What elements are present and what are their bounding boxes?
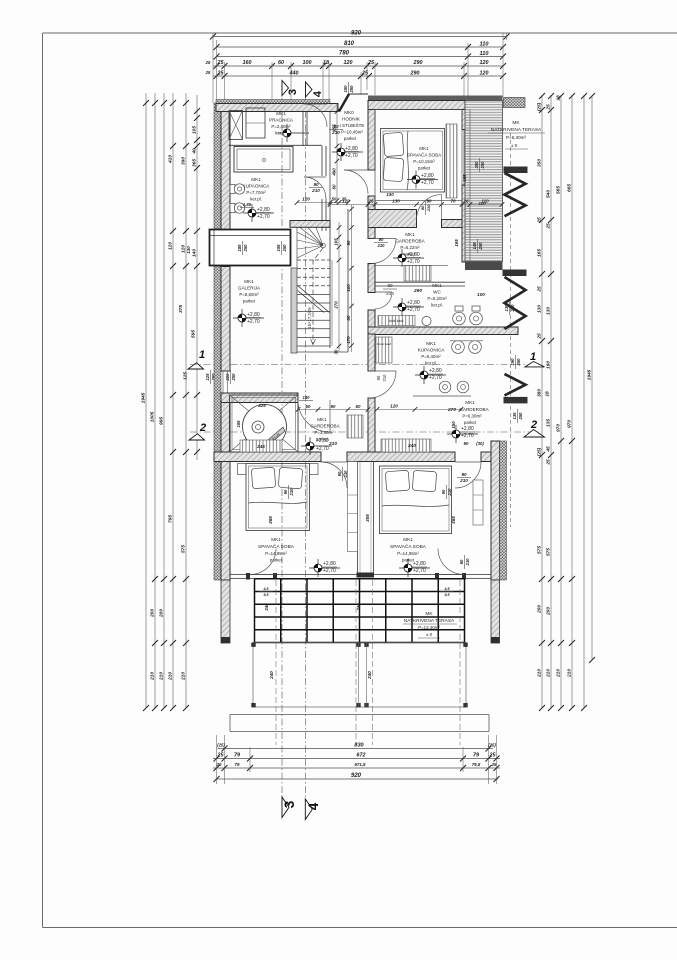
svg-text:25: 25 bbox=[489, 753, 497, 759]
svg-text:80: 80 bbox=[346, 315, 351, 320]
svg-text:3: 3 bbox=[287, 89, 299, 95]
svg-text:30: 30 bbox=[334, 349, 339, 354]
svg-text:79: 79 bbox=[473, 753, 479, 759]
svg-text:210: 210 bbox=[556, 669, 562, 678]
svg-text:125: 125 bbox=[183, 372, 189, 380]
svg-text:25: 25 bbox=[361, 71, 369, 77]
svg-text:90: 90 bbox=[313, 182, 319, 187]
svg-text:185: 185 bbox=[237, 244, 242, 252]
svg-text:1: 1 bbox=[199, 349, 205, 361]
svg-text:90: 90 bbox=[379, 237, 384, 242]
svg-text:60: 60 bbox=[356, 404, 361, 409]
svg-text:+2,80: +2,80 bbox=[316, 438, 329, 444]
svg-text:130: 130 bbox=[303, 395, 311, 400]
svg-text:795: 795 bbox=[168, 515, 174, 523]
svg-text:MK1: MK1 bbox=[276, 111, 286, 116]
svg-text:79,5: 79,5 bbox=[472, 762, 481, 767]
svg-text:25: 25 bbox=[537, 217, 543, 224]
svg-text:110: 110 bbox=[480, 42, 490, 48]
svg-text:90: 90 bbox=[459, 559, 464, 564]
svg-text:PRAONICA: PRAONICA bbox=[269, 118, 294, 123]
svg-text:120: 120 bbox=[302, 197, 310, 202]
svg-text:25: 25 bbox=[537, 286, 543, 293]
svg-text:150: 150 bbox=[343, 85, 348, 93]
svg-text:ker.pl.: ker.pl. bbox=[250, 197, 262, 202]
svg-text:110: 110 bbox=[480, 51, 490, 57]
svg-text:25: 25 bbox=[367, 60, 375, 66]
svg-text:440: 440 bbox=[289, 71, 299, 77]
svg-text:KUPAONICA: KUPAONICA bbox=[418, 348, 446, 353]
svg-text:1,85: 1,85 bbox=[243, 202, 252, 207]
svg-text:+2,70: +2,70 bbox=[407, 259, 420, 265]
svg-text:200: 200 bbox=[150, 609, 156, 618]
svg-text:250: 250 bbox=[516, 358, 521, 367]
svg-text:365: 365 bbox=[451, 516, 456, 524]
svg-text:+2,80: +2,80 bbox=[247, 312, 260, 318]
svg-text:365: 365 bbox=[268, 516, 273, 524]
svg-text:210: 210 bbox=[159, 672, 165, 681]
svg-text:+2,80: +2,80 bbox=[429, 368, 442, 374]
svg-text:90: 90 bbox=[376, 375, 381, 380]
svg-text:155: 155 bbox=[332, 124, 337, 132]
svg-text:130: 130 bbox=[186, 246, 191, 254]
svg-text:60: 60 bbox=[306, 404, 311, 409]
svg-text:26: 26 bbox=[462, 199, 469, 204]
svg-text:parket: parket bbox=[418, 166, 431, 171]
svg-text:130: 130 bbox=[386, 192, 394, 197]
svg-text:P=7,70m²: P=7,70m² bbox=[246, 190, 266, 195]
svg-text:25: 25 bbox=[546, 223, 552, 230]
svg-text:105: 105 bbox=[192, 126, 198, 134]
svg-text:ker.pl.: ker.pl. bbox=[431, 303, 443, 308]
svg-text:120: 120 bbox=[168, 242, 174, 250]
svg-text:25: 25 bbox=[217, 753, 225, 759]
svg-text:375: 375 bbox=[178, 305, 184, 313]
svg-text:SPAVAČA SOBA: SPAVAČA SOBA bbox=[258, 543, 295, 550]
svg-text:WC: WC bbox=[433, 290, 441, 295]
svg-text:25: 25 bbox=[217, 71, 225, 77]
svg-text:P=5,22m²: P=5,22m² bbox=[400, 245, 420, 250]
svg-text:25: 25 bbox=[546, 104, 552, 111]
svg-text:4: 4 bbox=[306, 802, 321, 810]
svg-text:165: 165 bbox=[236, 420, 241, 428]
svg-text:+2,70: +2,70 bbox=[247, 319, 260, 325]
svg-text:210: 210 bbox=[567, 669, 573, 678]
svg-text:+2,70: +2,70 bbox=[257, 214, 270, 220]
svg-text:parket: parket bbox=[464, 420, 477, 425]
svg-text:HODNIK: HODNIK bbox=[342, 117, 361, 122]
svg-text:165: 165 bbox=[454, 239, 459, 247]
svg-text:240: 240 bbox=[367, 671, 372, 680]
svg-text:4,5: 4,5 bbox=[263, 587, 270, 591]
svg-text:672: 672 bbox=[357, 753, 366, 759]
svg-text:90: 90 bbox=[441, 489, 446, 494]
svg-text:+2,80: +2,80 bbox=[421, 173, 434, 179]
svg-text:210: 210 bbox=[382, 374, 387, 382]
svg-text:+2,80: +2,80 bbox=[345, 146, 358, 152]
svg-text:parket: parket bbox=[344, 136, 357, 141]
svg-text:780: 780 bbox=[339, 51, 350, 57]
svg-text:79: 79 bbox=[234, 753, 240, 759]
svg-text:90: 90 bbox=[331, 404, 336, 409]
svg-text:MK1: MK1 bbox=[244, 279, 254, 284]
svg-text:3: 3 bbox=[282, 800, 297, 808]
svg-text:18: 18 bbox=[556, 95, 562, 101]
svg-text:125: 125 bbox=[205, 373, 210, 381]
svg-text:145: 145 bbox=[472, 242, 477, 250]
svg-text:NATKRIVENA TERASA: NATKRIVENA TERASA bbox=[491, 127, 542, 133]
svg-text:I STUBIŠTE: I STUBIŠTE bbox=[339, 122, 364, 128]
svg-text:± 0: ± 0 bbox=[426, 632, 433, 637]
svg-text:široki kauč: široki kauč bbox=[388, 319, 403, 323]
svg-text:90: 90 bbox=[461, 472, 467, 477]
svg-text:380: 380 bbox=[537, 389, 543, 397]
svg-text:P=13,40m²: P=13,40m² bbox=[418, 625, 440, 630]
svg-text:490: 490 bbox=[332, 168, 337, 177]
svg-text:90: 90 bbox=[387, 283, 393, 288]
svg-text:GARDEROBA: GARDEROBA bbox=[395, 239, 425, 244]
svg-text:+2,70: +2,70 bbox=[429, 375, 442, 381]
svg-text:350: 350 bbox=[474, 161, 479, 169]
svg-text:210: 210 bbox=[328, 441, 337, 447]
svg-text:165: 165 bbox=[537, 249, 543, 257]
svg-text:4: 4 bbox=[312, 90, 324, 97]
svg-text:1945: 1945 bbox=[587, 369, 593, 380]
svg-text:210: 210 bbox=[537, 669, 543, 678]
svg-text:60: 60 bbox=[278, 60, 284, 66]
svg-text:210: 210 bbox=[377, 243, 386, 248]
svg-text:120: 120 bbox=[344, 60, 353, 66]
svg-text:410: 410 bbox=[168, 155, 174, 164]
svg-text:(30): (30) bbox=[476, 441, 484, 446]
svg-text:MK1: MK1 bbox=[465, 400, 475, 405]
svg-text:200: 200 bbox=[159, 609, 165, 618]
svg-text:250: 250 bbox=[282, 244, 287, 253]
svg-text:210: 210 bbox=[150, 672, 156, 681]
svg-text:+2,80: +2,80 bbox=[323, 561, 336, 567]
svg-text:920: 920 bbox=[351, 31, 362, 37]
svg-text:+2,70: +2,70 bbox=[323, 568, 336, 574]
svg-text:MK1: MK1 bbox=[419, 146, 429, 151]
svg-text:P=5,20m²: P=5,20m² bbox=[427, 296, 447, 301]
svg-text:ker.pl.: ker.pl. bbox=[425, 361, 437, 366]
svg-text:16×17,2/29: 16×17,2/29 bbox=[307, 307, 312, 329]
svg-text:+2,80: +2,80 bbox=[461, 426, 474, 432]
svg-text:270: 270 bbox=[334, 301, 339, 310]
svg-text:+2,70: +2,70 bbox=[345, 153, 358, 159]
svg-text:(25): (25) bbox=[537, 102, 543, 111]
svg-text:240: 240 bbox=[269, 671, 274, 680]
svg-text:195: 195 bbox=[276, 244, 281, 252]
svg-text:135: 135 bbox=[546, 419, 552, 427]
svg-text:100: 100 bbox=[477, 292, 485, 297]
svg-text:P=14,95m²: P=14,95m² bbox=[265, 551, 287, 556]
svg-text:160: 160 bbox=[243, 60, 252, 66]
svg-text:NATKRIVENA TERASA: NATKRIVENA TERASA bbox=[404, 618, 455, 624]
svg-text:180: 180 bbox=[451, 421, 456, 429]
svg-text:široki kauč: široki kauč bbox=[377, 342, 392, 346]
svg-text:665: 665 bbox=[567, 184, 573, 192]
svg-text:MK1: MK1 bbox=[403, 537, 413, 542]
svg-text:25: 25 bbox=[205, 70, 211, 75]
svg-text:parket: parket bbox=[270, 558, 283, 563]
svg-text:250: 250 bbox=[231, 373, 236, 382]
svg-text:parket: parket bbox=[243, 299, 256, 304]
svg-text:1945: 1945 bbox=[141, 392, 147, 403]
svg-text:MK1: MK1 bbox=[251, 177, 261, 182]
svg-text:P=14,95m²: P=14,95m² bbox=[397, 551, 419, 556]
svg-text:18: 18 bbox=[323, 60, 329, 66]
svg-text:+2,80: +2,80 bbox=[407, 252, 420, 258]
svg-text:MK0: MK0 bbox=[344, 110, 354, 115]
svg-text:(25): (25) bbox=[488, 743, 496, 748]
svg-text:290: 290 bbox=[413, 60, 423, 66]
svg-text:210: 210 bbox=[181, 672, 187, 681]
svg-text:210: 210 bbox=[289, 488, 294, 497]
svg-text:250: 250 bbox=[243, 244, 248, 253]
svg-text:90: 90 bbox=[283, 489, 288, 494]
svg-text:P=16,45m²: P=16,45m² bbox=[341, 130, 363, 135]
svg-text:565: 565 bbox=[556, 186, 562, 194]
svg-text:+2,70: +2,70 bbox=[407, 307, 420, 313]
svg-text:540: 540 bbox=[546, 190, 552, 198]
svg-text:P=10,15m²: P=10,15m² bbox=[413, 159, 435, 164]
svg-text:P=6,30m²: P=6,30m² bbox=[462, 414, 482, 419]
svg-text:SPAVAČA SOBA: SPAVAČA SOBA bbox=[390, 543, 427, 550]
svg-text:+2,70: +2,70 bbox=[316, 446, 329, 452]
svg-text:60: 60 bbox=[332, 184, 337, 189]
svg-text:25: 25 bbox=[217, 60, 225, 66]
svg-text:290: 290 bbox=[413, 288, 422, 294]
svg-text:130: 130 bbox=[546, 307, 552, 315]
svg-text:365: 365 bbox=[192, 159, 198, 167]
svg-text:1: 1 bbox=[530, 351, 536, 363]
svg-text:4,5: 4,5 bbox=[444, 587, 451, 591]
svg-text:575: 575 bbox=[546, 548, 552, 556]
svg-text:79: 79 bbox=[235, 762, 240, 767]
svg-text:MK: MK bbox=[512, 120, 520, 126]
svg-text:165: 165 bbox=[462, 174, 467, 182]
svg-text:595: 595 bbox=[191, 330, 197, 338]
svg-text:970: 970 bbox=[567, 420, 573, 428]
svg-text:210: 210 bbox=[465, 558, 470, 567]
svg-text:P=2,40m²: P=2,40m² bbox=[271, 124, 291, 129]
svg-text:MK1: MK1 bbox=[426, 341, 436, 346]
svg-text:25: 25 bbox=[546, 459, 552, 466]
svg-text:100: 100 bbox=[346, 284, 351, 292]
svg-text:671,5: 671,5 bbox=[355, 762, 367, 767]
svg-text:200: 200 bbox=[546, 607, 552, 616]
svg-text:110: 110 bbox=[481, 199, 489, 204]
svg-text:MK1: MK1 bbox=[432, 283, 442, 288]
svg-text:+2,80: +2,80 bbox=[413, 561, 426, 567]
svg-text:MK1: MK1 bbox=[317, 417, 327, 422]
svg-text:190: 190 bbox=[546, 361, 552, 369]
svg-text:40: 40 bbox=[192, 148, 198, 155]
svg-text:SPAVAČA SOBA: SPAVAČA SOBA bbox=[407, 152, 442, 158]
svg-text:210: 210 bbox=[447, 488, 452, 497]
svg-text:130: 130 bbox=[392, 199, 400, 204]
svg-text:90: 90 bbox=[420, 205, 425, 210]
svg-text:995: 995 bbox=[159, 417, 165, 425]
svg-text:70: 70 bbox=[450, 199, 456, 204]
svg-text:25: 25 bbox=[205, 60, 211, 65]
svg-text:+2,80: +2,80 bbox=[407, 300, 420, 306]
svg-text:240: 240 bbox=[264, 603, 269, 612]
svg-text:P=6,40m²: P=6,40m² bbox=[421, 354, 441, 359]
svg-text:170: 170 bbox=[346, 336, 351, 344]
svg-text:GARDEROBA: GARDEROBA bbox=[310, 424, 340, 429]
svg-text:± 0: ± 0 bbox=[511, 143, 518, 148]
svg-text:250: 250 bbox=[480, 161, 485, 170]
svg-text:210: 210 bbox=[168, 672, 174, 681]
svg-text:+2,80: +2,80 bbox=[257, 207, 270, 213]
svg-text:MK1: MK1 bbox=[271, 537, 281, 542]
svg-text:+2,70: +2,70 bbox=[413, 568, 426, 574]
svg-text:25: 25 bbox=[491, 762, 497, 767]
svg-text:P=3,90m²: P=3,90m² bbox=[314, 430, 334, 435]
svg-text:120: 120 bbox=[390, 404, 398, 409]
svg-text:18: 18 bbox=[545, 391, 551, 397]
svg-text:GALERIJA: GALERIJA bbox=[238, 286, 261, 291]
svg-text:GARDEROBA: GARDEROBA bbox=[459, 407, 489, 412]
svg-text:+2,70: +2,70 bbox=[461, 433, 474, 439]
svg-text:210: 210 bbox=[459, 478, 468, 483]
svg-text:45: 45 bbox=[546, 446, 552, 453]
svg-text:240: 240 bbox=[356, 603, 361, 612]
svg-text:250: 250 bbox=[518, 412, 523, 421]
svg-text:26: 26 bbox=[367, 199, 374, 204]
svg-text:MK: MK bbox=[425, 611, 433, 617]
svg-text:970: 970 bbox=[556, 424, 562, 432]
svg-text:575: 575 bbox=[537, 546, 543, 554]
svg-text:KUPAONICA: KUPAONICA bbox=[243, 184, 271, 189]
svg-text:120: 120 bbox=[480, 60, 489, 66]
svg-text:100: 100 bbox=[303, 60, 312, 66]
svg-text:210: 210 bbox=[426, 204, 431, 212]
svg-text:(25): (25) bbox=[217, 743, 225, 748]
svg-text:210: 210 bbox=[546, 669, 552, 678]
svg-text:P=6,30m²: P=6,30m² bbox=[506, 135, 527, 140]
svg-text:240: 240 bbox=[407, 443, 416, 449]
svg-text:+2,70: +2,70 bbox=[421, 180, 434, 186]
svg-text:135: 135 bbox=[512, 412, 517, 420]
svg-text:200: 200 bbox=[537, 605, 543, 614]
svg-text:120: 120 bbox=[342, 199, 350, 204]
svg-text:250: 250 bbox=[349, 85, 354, 94]
svg-text:25: 25 bbox=[537, 333, 543, 340]
svg-text:225: 225 bbox=[257, 403, 266, 408]
svg-text:210: 210 bbox=[311, 188, 320, 193]
svg-text:P=8,50m²: P=8,50m² bbox=[239, 292, 259, 297]
svg-text:105: 105 bbox=[334, 238, 339, 246]
svg-text:270: 270 bbox=[447, 407, 456, 413]
svg-text:(25): (25) bbox=[537, 447, 543, 456]
svg-text:390: 390 bbox=[181, 157, 187, 165]
svg-text:1005: 1005 bbox=[150, 411, 156, 422]
svg-text:290: 290 bbox=[410, 71, 420, 77]
svg-text:MK1: MK1 bbox=[405, 232, 415, 237]
svg-text:350: 350 bbox=[537, 159, 543, 167]
svg-text:250: 250 bbox=[478, 242, 483, 251]
svg-text:810: 810 bbox=[344, 41, 355, 47]
svg-text:920: 920 bbox=[351, 773, 362, 779]
svg-text:130: 130 bbox=[537, 305, 543, 313]
svg-text:120: 120 bbox=[480, 71, 489, 77]
svg-text:575: 575 bbox=[181, 545, 187, 553]
svg-text:90: 90 bbox=[346, 240, 351, 245]
svg-text:355: 355 bbox=[365, 514, 370, 522]
svg-text:140: 140 bbox=[192, 249, 198, 257]
svg-text:90: 90 bbox=[464, 441, 469, 446]
svg-text:245: 245 bbox=[256, 444, 265, 449]
